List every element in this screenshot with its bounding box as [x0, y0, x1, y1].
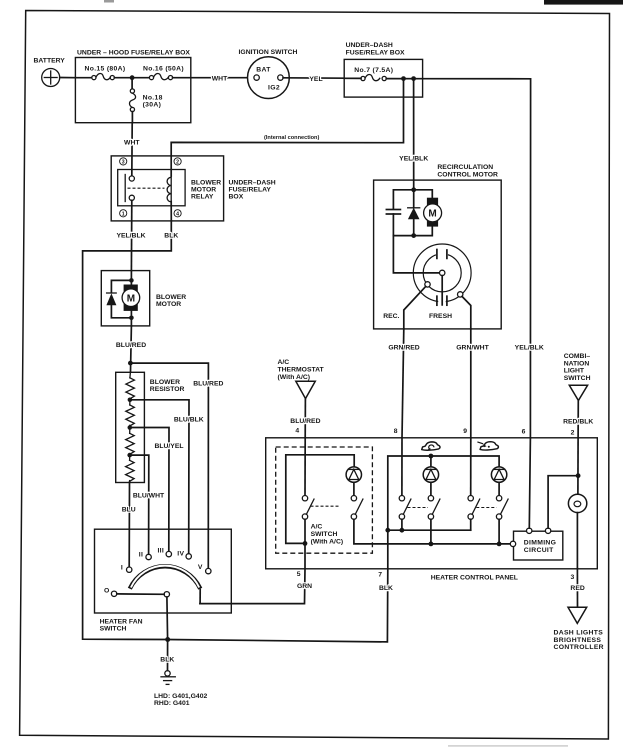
svg-text:3: 3 [571, 574, 575, 581]
node rail/pin7 junction [385, 528, 390, 533]
svg-text:HEATER CONTROL PANEL: HEATER CONTROL PANEL [431, 574, 518, 581]
svg-text:UNDER – HOOD FUSE/RELAY BOX: UNDER – HOOD FUSE/RELAY BOX [77, 49, 190, 56]
svg-text:BLU/RED: BLU/RED [193, 380, 223, 387]
rotary switch circles [404, 244, 471, 329]
blower motor box [101, 271, 149, 326]
svg-text:SWITCH: SWITCH [311, 531, 338, 538]
A/C switch wiring frame [286, 455, 354, 544]
svg-text:WHT: WHT [124, 140, 140, 147]
svg-text:RESISTOR: RESISTOR [150, 386, 185, 393]
diode recirc [408, 190, 420, 236]
heater fan switch box [95, 529, 232, 613]
FRESH contact [458, 292, 463, 297]
low rail to pin7 [388, 529, 471, 531]
svg-text:III: III [157, 548, 164, 555]
wire dimming to pin2 node [548, 476, 578, 528]
svg-text:1: 1 [122, 212, 125, 218]
wire GRN/WHT to pin 9 [470, 329, 472, 438]
terminal II [139, 552, 152, 560]
terminal common wiper [164, 592, 169, 597]
car icon fresh [477, 442, 498, 450]
svg-text:No.15 (80A): No.15 (80A) [85, 66, 126, 73]
svg-text:BRIGHTNESS: BRIGHTNESS [554, 637, 602, 644]
svg-text:YEL: YEL [309, 76, 322, 83]
svg-text:BLU/YEL: BLU/YEL [154, 443, 183, 450]
svg-text:O: O [104, 588, 110, 595]
wire battery to under-hood box [60, 77, 76, 79]
A/C switch contacts (pin4) [302, 438, 314, 544]
wire fuse15 to node [114, 77, 149, 79]
center terminal [440, 270, 445, 275]
wire fuse16 out to ignition switch [173, 77, 254, 79]
svg-text:BLOWER: BLOWER [156, 294, 186, 301]
under-hood fuse/relay box [75, 58, 190, 123]
node junction under-hood [130, 75, 135, 80]
blower resistor box [116, 372, 145, 482]
svg-text:8: 8 [394, 428, 398, 435]
wire WHT under-hood down to relay [131, 123, 133, 178]
svg-text:SWITCH: SWITCH [564, 375, 591, 382]
O terminal wire [117, 593, 164, 595]
svg-text:BATTERY: BATTERY [34, 58, 66, 65]
svg-text:YEL/BLK: YEL/BLK [399, 155, 428, 162]
blower motor internals [106, 271, 139, 326]
relay inner box [118, 170, 185, 206]
relay switch contacts [125, 175, 134, 202]
svg-text:BLK: BLK [160, 657, 174, 664]
svg-text:REC.: REC. [383, 313, 399, 320]
pin 3 RED out [576, 569, 578, 612]
svg-text:M: M [127, 293, 135, 304]
node ground junction [165, 637, 170, 642]
top faint mark [104, 0, 114, 3]
diode branch [111, 280, 131, 292]
svg-text:2: 2 [571, 430, 575, 437]
wire YEL/BLK to recirculation motor [413, 79, 415, 190]
recirc motor M [393, 198, 441, 236]
fuse No.7 (7.5A) [344, 67, 422, 80]
relay pin 1 [120, 210, 127, 218]
svg-text:II: II [139, 552, 143, 559]
node pin2/dimming junction [576, 473, 581, 478]
svg-text:RELAY: RELAY [191, 194, 214, 201]
svg-text:BLU/RED: BLU/RED [116, 342, 146, 349]
recirc motor top node [411, 187, 416, 192]
wire relay pin4 BLK down and left [83, 221, 172, 640]
wire ignition to under-dash box [283, 77, 344, 79]
wire pin5 GRN down to fan switch [200, 543, 305, 603]
svg-text:NATION: NATION [564, 360, 590, 367]
svg-text:UNDER–DASH: UNDER–DASH [229, 179, 276, 186]
heater control panel box [266, 438, 598, 569]
svg-text:A/C: A/C [311, 523, 323, 530]
svg-text:(Internal connection): (Internal connection) [264, 135, 319, 141]
svg-text:IG2: IG2 [268, 84, 280, 91]
svg-text:No.16 (50A): No.16 (50A) [143, 66, 184, 73]
svg-text:3: 3 [122, 160, 125, 166]
svg-text:6: 6 [522, 428, 526, 435]
relay pin 4 [174, 210, 181, 218]
wire relay pin1 down [130, 200, 132, 270]
node A/C out [303, 541, 308, 546]
blower motor relay box (under-dash fuse/relay box) [111, 156, 223, 221]
recirculation control motor box [374, 180, 502, 329]
svg-text:COMBI–: COMBI– [564, 353, 591, 360]
bottom faint mark [448, 745, 568, 746]
fuse No.16 (50A) [143, 66, 184, 80]
svg-text:GRN/WHT: GRN/WHT [456, 345, 489, 352]
wire into fuse 15 [75, 77, 91, 79]
terminal V [198, 564, 211, 574]
fuse No.15 (80A) [85, 66, 126, 80]
svg-text:No.18: No.18 [143, 95, 163, 102]
svg-text:IGNITION SWITCH: IGNITION SWITCH [239, 49, 298, 56]
bottom rail node [411, 233, 416, 238]
node blower output [128, 361, 133, 366]
tap BLU/YEL to III [130, 428, 169, 552]
ground wire BLK [167, 640, 169, 671]
svg-text:FRESH: FRESH [429, 313, 452, 320]
combination light switch [563, 353, 593, 438]
svg-text:I: I [121, 564, 123, 571]
rotary wiper arc [130, 566, 201, 604]
under-dash fuse/relay box (top) [344, 59, 422, 97]
svg-text:FUSE/RELAY BOX: FUSE/RELAY BOX [346, 49, 405, 56]
car icon recirc [422, 442, 440, 450]
ground G401 [161, 671, 175, 685]
relay pin 2 [174, 158, 181, 166]
svg-text:CIRCUIT: CIRCUIT [524, 547, 554, 554]
right lamp [491, 467, 508, 546]
wire branch to V terminal BLU/RED [130, 363, 208, 568]
svg-text:LHD: G401,G402: LHD: G401,G402 [154, 693, 207, 700]
svg-text:RED/BLK: RED/BLK [563, 419, 593, 426]
svg-text:MOTOR: MOTOR [156, 301, 181, 308]
A/C thermostat [278, 359, 325, 438]
fuse No.18 (30A) vertical [129, 78, 162, 123]
svg-text:LIGHT: LIGHT [564, 368, 585, 375]
svg-text:BLK: BLK [379, 585, 393, 592]
ignition switch [239, 49, 298, 99]
A/C indicator lamp [346, 467, 361, 496]
node tap 3 [127, 453, 132, 458]
bulb on pin2 [568, 438, 586, 569]
svg-text:(With A/C): (With A/C) [311, 538, 344, 545]
svg-text:V: V [198, 564, 203, 571]
svg-text:BAT: BAT [256, 67, 271, 74]
svg-text:BLOWER: BLOWER [191, 179, 221, 186]
svg-text:UNDER–DASH: UNDER–DASH [346, 42, 393, 49]
REC contact [425, 282, 430, 287]
switch common down to ground [166, 597, 169, 640]
relay pin 3 [120, 158, 127, 166]
svg-text:GRN/RED: GRN/RED [388, 345, 419, 352]
wire GRN/RED to pin 8 [402, 329, 404, 438]
internal connection wire [171, 79, 403, 176]
top rail [393, 190, 432, 209]
svg-text:RECIRCULATION: RECIRCULATION [437, 164, 493, 171]
svg-text:BLU: BLU [122, 507, 136, 514]
relay dashed link [128, 187, 165, 189]
svg-text:9: 9 [463, 428, 467, 435]
dimming terminals [527, 528, 532, 533]
capacitor C [386, 210, 400, 236]
motor body [124, 285, 138, 311]
svg-text:BOX: BOX [229, 194, 244, 201]
resistor R1 [126, 372, 135, 405]
svg-text:(With A/C): (With A/C) [278, 374, 311, 381]
battery B1 [34, 58, 66, 87]
wire fuse7 to right then down to pin6 (YEL/BLK long) [423, 79, 531, 438]
tap BLU/WHT to II [130, 455, 149, 554]
svg-text:RED: RED [570, 585, 584, 592]
svg-text:SWITCH: SWITCH [100, 626, 127, 633]
relay coil [167, 176, 171, 221]
node junctions at fuse7 output [401, 76, 406, 81]
svg-text:HEATER FAN: HEATER FAN [100, 618, 143, 625]
wire to rotary center [393, 236, 439, 273]
A/C switch dashed box [276, 447, 373, 553]
svg-text:DIMMING: DIMMING [524, 540, 556, 547]
mid lamp [423, 456, 440, 546]
svg-text:2: 2 [176, 160, 179, 166]
node tap 1 [128, 398, 133, 403]
svg-text:BLU/WHT: BLU/WHT [133, 493, 165, 500]
svg-text:YEL/BLK: YEL/BLK [116, 232, 145, 239]
svg-text:A/C: A/C [278, 359, 290, 366]
svg-text:4: 4 [176, 212, 179, 218]
wire pin6 down to dimming [529, 438, 530, 528]
svg-text:FUSE/RELAY: FUSE/RELAY [229, 187, 272, 194]
node tap 2 [128, 425, 133, 430]
svg-text:BLU/BLK: BLU/BLK [174, 416, 204, 423]
ganged dashes pin8/lamp [408, 507, 429, 509]
svg-text:BLOWER: BLOWER [150, 379, 180, 386]
svg-text:(30A): (30A) [143, 102, 162, 109]
top-right black header bar [544, 0, 623, 5]
terminal O [104, 588, 117, 597]
resistor R3 [126, 433, 135, 460]
pin 9 switch [468, 438, 480, 530]
wire blower motor down BLU/RED [130, 326, 133, 372]
tap BLU/BLK to IV [130, 400, 189, 554]
svg-text:WHT: WHT [212, 76, 228, 83]
svg-text:M: M [428, 209, 436, 220]
resistor R2 [126, 405, 135, 433]
svg-text:MOTOR: MOTOR [191, 187, 216, 194]
svg-text:GRN: GRN [297, 583, 312, 590]
svg-text:CONTROL MOTOR: CONTROL MOTOR [437, 172, 498, 179]
svg-text:7: 7 [378, 571, 382, 578]
wire BLU resistor bottom to I [128, 483, 130, 568]
recirc group rail [388, 456, 499, 530]
svg-text:DASH LIGHTS: DASH LIGHTS [554, 630, 604, 637]
svg-text:YEL/BLK: YEL/BLK [515, 345, 544, 352]
svg-text:BLK: BLK [164, 232, 178, 239]
commutator ticks [436, 250, 438, 259]
resistor R4 [126, 460, 135, 482]
ganged dashes pin9/lamp [476, 507, 496, 509]
svg-text:RHD: G401: RHD: G401 [154, 700, 190, 707]
terminal IV [177, 550, 191, 559]
dimming circuit box [514, 531, 563, 560]
svg-text:BLU/RED: BLU/RED [290, 418, 320, 425]
wire pin7 BLK down [168, 530, 388, 642]
ganged dashes A/C [311, 505, 340, 507]
pin 8 switch [399, 438, 411, 533]
svg-text:4: 4 [295, 428, 299, 435]
svg-text:No.7 (7.5A): No.7 (7.5A) [354, 67, 393, 74]
svg-text:CONTROLLER: CONTROLLER [554, 644, 604, 651]
A/C lamp switch [351, 496, 513, 544]
terminal III [157, 548, 171, 557]
terminal I [121, 564, 132, 572]
svg-text:5: 5 [297, 571, 301, 578]
svg-text:THERMOSTAT: THERMOSTAT [278, 366, 325, 373]
dash lights brightness controller [554, 607, 604, 651]
svg-text:IV: IV [177, 550, 184, 557]
node lamp rail junction [429, 454, 434, 459]
